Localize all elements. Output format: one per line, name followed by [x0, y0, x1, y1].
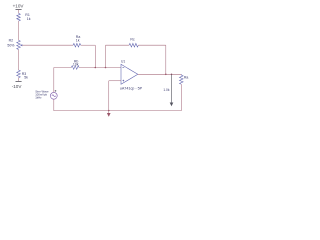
resistor R1 [17, 13, 31, 21]
svg-text:+10V: +10V [13, 4, 25, 9]
wire [18, 21, 20, 40]
ground [107, 111, 111, 117]
wire feedback up [105, 45, 107, 67]
node out [165, 74, 167, 76]
node B [105, 67, 107, 69]
op-amp U1 [120, 60, 143, 91]
svg-text:1kHz: 1kHz [35, 96, 42, 100]
wire [18, 10, 20, 14]
svg-text:1k: 1k [76, 39, 80, 43]
svg-text:1.0k: 1.0k [163, 88, 169, 92]
resistor Rb [71, 60, 79, 70]
wire [81, 44, 96, 46]
wire [165, 45, 167, 74]
svg-text:10k: 10k [73, 62, 79, 66]
wire [138, 44, 166, 46]
potentiometer R2 [7, 39, 22, 50]
wire [18, 78, 20, 82]
svg-text:1k: 1k [27, 17, 31, 21]
wire probe [171, 74, 173, 103]
svg-text:50%: 50% [7, 43, 14, 47]
source V1 sine [50, 90, 57, 99]
wire [180, 84, 182, 111]
svg-text:-10V: -10V [12, 84, 23, 89]
node A [95, 67, 97, 69]
svg-text:uA741cp - 5P: uA741cp - 5P [120, 86, 143, 90]
svg-text:R2: R2 [9, 39, 14, 43]
resistor Ra load [180, 74, 189, 84]
wire [94, 45, 96, 67]
wire [53, 68, 55, 93]
node probe [171, 74, 173, 76]
svg-text:U1: U1 [121, 60, 125, 64]
wire noninv [109, 80, 121, 82]
resistor R3 [17, 70, 28, 80]
wire [108, 81, 110, 111]
svg-text:Rc: Rc [130, 37, 135, 41]
node gnd [108, 110, 110, 112]
wire [18, 50, 20, 71]
resistor Rc [129, 37, 138, 47]
label V1 [35, 90, 49, 100]
svg-text:Ra: Ra [184, 76, 189, 80]
wire [106, 44, 130, 46]
resistor Ra [73, 35, 81, 47]
wire wiper [22, 44, 73, 46]
wire output [138, 73, 182, 75]
svg-text:5k: 5k [24, 76, 28, 80]
wire bottom [54, 110, 182, 112]
ground arrow right [170, 103, 174, 107]
power +10V [13, 4, 25, 10]
wire [53, 99, 55, 111]
power -10V [12, 81, 23, 88]
wire [54, 67, 72, 69]
wire [79, 67, 121, 69]
